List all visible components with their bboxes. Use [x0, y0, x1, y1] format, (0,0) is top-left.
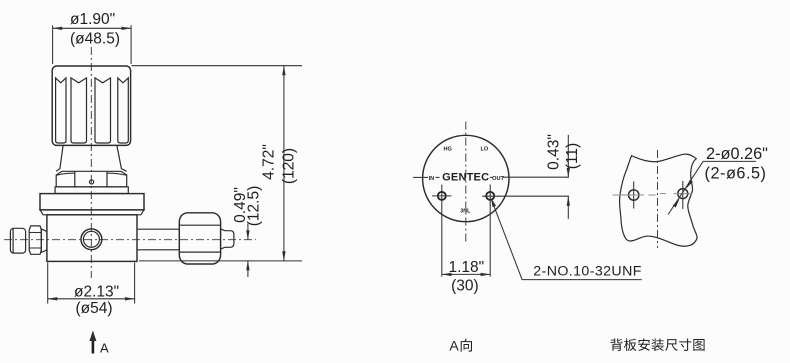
- label OUT: [492, 176, 504, 182]
- leader 2-NO.10-32UNF: [491, 198, 642, 280]
- caption A view: [449, 338, 472, 354]
- svg-text:(ø48.5): (ø48.5): [70, 31, 120, 48]
- centerline vertical (A view): [465, 122, 467, 243]
- knob flute 1: [56, 78, 66, 143]
- centerline vertical (panel): [657, 150, 659, 248]
- panel blob outline: [620, 154, 697, 246]
- label IN: [429, 176, 435, 182]
- svg-text:2-NO.10-32UNF: 2-NO.10-32UNF: [533, 264, 641, 280]
- svg-text:ø2.13": ø2.13": [74, 283, 119, 300]
- gauge port boss inner: [83, 231, 99, 247]
- leader 2-Ø0.26: [668, 145, 768, 215]
- label HG: [444, 147, 452, 153]
- mounting hole right (A view): [482, 185, 569, 277]
- svg-text:LO: LO: [481, 147, 489, 153]
- svg-text:2-ø0.26": 2-ø0.26": [706, 145, 768, 163]
- svg-text:HG: HG: [444, 147, 452, 153]
- dimension 1.18 / 30 (hole spacing): [442, 259, 490, 295]
- caption back panel mounting dimensions: [611, 338, 705, 351]
- inlet cap: [10, 228, 25, 253]
- svg-text:(2-ø6.5): (2-ø6.5): [705, 164, 767, 182]
- svg-text:(120): (120): [281, 148, 298, 184]
- IN tick line: [413, 176, 428, 178]
- centerline horizontal (port axis): [4, 239, 256, 241]
- gauge port boss outer: [81, 229, 102, 250]
- dimension Ø1.90 / Ø48.5 (knob diameter): [53, 11, 132, 64]
- svg-text:A: A: [449, 338, 459, 354]
- svg-text:(12.5): (12.5): [246, 186, 263, 227]
- panel hole left: [613, 182, 656, 209]
- centerline vertical (left view axis): [90, 47, 92, 278]
- dimension 4.72 / 120 (overall height): [132, 66, 303, 261]
- tick between IN and GENTEC: [436, 176, 440, 178]
- outlet hex nut: [179, 213, 220, 264]
- hex nut center dot: [90, 180, 94, 184]
- bonnet flange chamfer strip: [40, 210, 144, 215]
- bonnet hex nut: [56, 171, 127, 187]
- svg-text:4.72": 4.72": [261, 144, 278, 180]
- svg-text:A: A: [100, 341, 109, 356]
- svg-text:OUT: OUT: [492, 176, 504, 182]
- dimension 0.43 / 11 (axis to hole): [546, 134, 581, 219]
- GENTEC logo text: [442, 171, 489, 183]
- knob flute 4: [118, 78, 129, 143]
- knob flute 3: [95, 78, 111, 143]
- dimension Ø2.13 / Ø54 (body diameter): [48, 263, 135, 318]
- mounting hole left (A view): [432, 185, 452, 277]
- spring chamber band: [55, 187, 128, 194]
- bonnet flange: [40, 194, 144, 210]
- svg-text:IN: IN: [429, 176, 435, 182]
- label LO: [481, 147, 489, 153]
- inlet hex nut: [29, 226, 41, 254]
- label 3NL: [460, 209, 471, 215]
- panel face circle: [423, 135, 509, 221]
- svg-text:1.18": 1.18": [448, 259, 484, 276]
- outlet tip: [221, 229, 234, 249]
- svg-text:(ø54): (ø54): [75, 300, 112, 317]
- outlet pipe: [137, 229, 179, 250]
- panel hole right: [660, 181, 693, 209]
- svg-text:0.43": 0.43": [546, 134, 563, 170]
- knob outline: [52, 66, 130, 145]
- svg-text:(30): (30): [451, 278, 479, 295]
- svg-text:(11): (11): [564, 143, 581, 169]
- inlet collar: [41, 229, 47, 253]
- svg-text:ø1.90": ø1.90": [70, 11, 115, 28]
- tick between GENTEC and OUT: [490, 176, 493, 178]
- svg-text:GENTEC: GENTEC: [442, 171, 489, 183]
- knob neck: [56, 146, 127, 172]
- OUT axis extension line: [503, 176, 569, 178]
- view arrow A: [89, 331, 109, 356]
- svg-text:3NL: 3NL: [460, 209, 471, 215]
- dimension 0.49 / 12.5 (outlet axis to base): [232, 186, 263, 277]
- knob flute 2: [71, 78, 87, 143]
- regulator body: [47, 215, 137, 262]
